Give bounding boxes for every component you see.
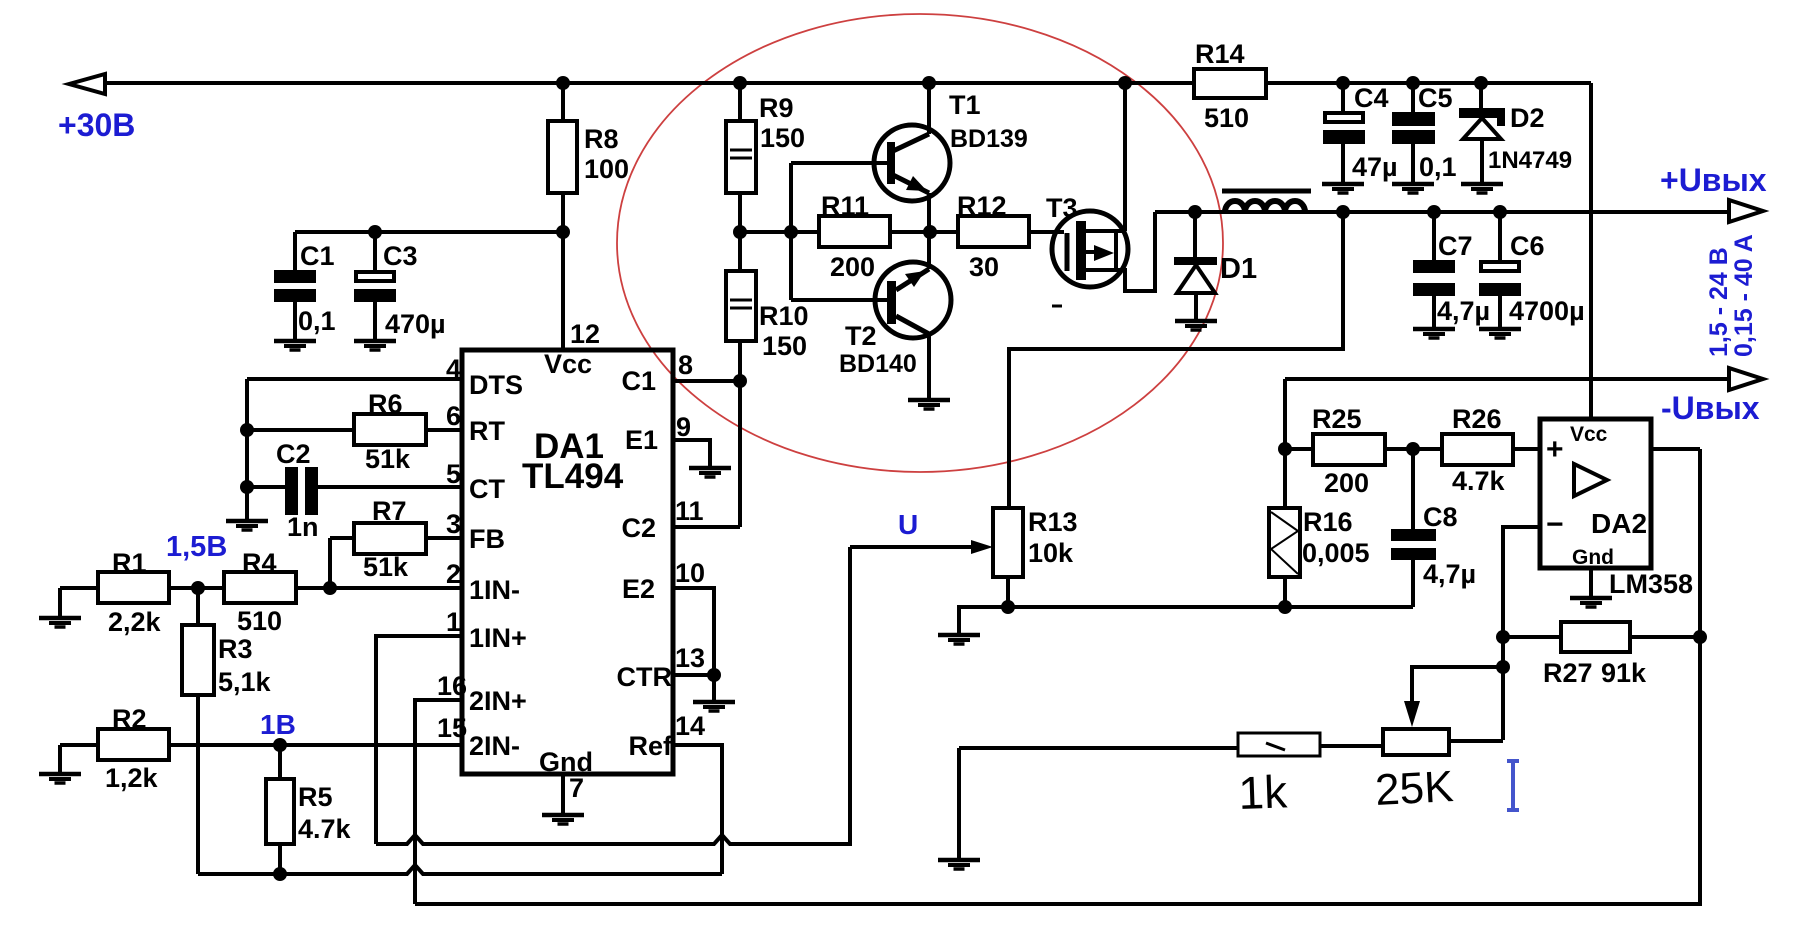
resistor R8 <box>548 83 629 232</box>
node R27 right junction <box>1693 630 1707 644</box>
node blue cursor mark <box>1507 761 1519 810</box>
wire pin 10 E2 <box>673 588 714 675</box>
svg-text:C7: C7 <box>1438 231 1473 261</box>
wire R1 to R4 <box>169 586 224 590</box>
svg-text:4.7k: 4.7k <box>1452 466 1506 496</box>
svg-text:2IN+: 2IN+ <box>469 686 527 716</box>
transistor T3 MOSFET <box>1046 193 1128 287</box>
ground under C4 <box>1322 184 1364 193</box>
node R25/R16 junction <box>1278 442 1292 456</box>
svg-text:+Uвых: +Uвых <box>1660 162 1767 198</box>
wire pin 14 Ref <box>673 745 722 874</box>
svg-text:R1: R1 <box>112 548 147 578</box>
node RT junction <box>240 423 254 437</box>
svg-text:6: 6 <box>446 401 461 431</box>
wire R2 ground stub <box>58 745 62 772</box>
svg-text:510: 510 <box>237 606 282 636</box>
svg-text:1: 1 <box>446 607 461 637</box>
svg-text:25K: 25K <box>1374 762 1455 815</box>
svg-text:R12: R12 <box>957 191 1007 221</box>
svg-text:R25: R25 <box>1312 404 1362 434</box>
svg-text:1IN-: 1IN- <box>469 575 520 605</box>
svg-text:1IN+: 1IN+ <box>469 623 527 653</box>
node R25/R26/C8 junction <box>1406 442 1420 456</box>
svg-text:Gnd: Gnd <box>1572 546 1614 569</box>
wire DTS/RT/CT vertical <box>245 379 249 520</box>
svg-text:1,2k: 1,2k <box>105 763 159 793</box>
svg-text:1N4749: 1N4749 <box>1488 147 1572 174</box>
wire pin 1 1IN+ <box>376 636 462 844</box>
svg-text:13: 13 <box>675 643 705 673</box>
node rail junction C5 <box>1406 76 1420 90</box>
svg-text:BD140: BD140 <box>839 350 917 378</box>
node U arrow to R13 <box>850 509 993 554</box>
wire -U sense vertical <box>1283 379 1287 508</box>
wire Vcc node to C1/C3 <box>295 230 563 234</box>
svg-text:CT: CT <box>469 474 505 504</box>
wire switch node line <box>1155 210 1729 214</box>
wire output feedback line <box>1009 212 1343 508</box>
capacitor C5 0,1 <box>1392 83 1457 182</box>
ground under DA2 <box>1570 598 1612 607</box>
node rail junction T1 collector <box>922 76 936 90</box>
ground under CTR <box>693 702 735 711</box>
wire CTR ground stub <box>712 675 716 700</box>
svg-text:R3: R3 <box>218 634 253 664</box>
svg-text:150: 150 <box>760 123 805 153</box>
resistor R11 200 <box>819 191 890 282</box>
resistor R27 91k <box>1503 622 1700 688</box>
svg-text:T3: T3 <box>1046 193 1078 223</box>
svg-text:RT: RT <box>469 416 505 446</box>
svg-text:R5: R5 <box>298 782 333 812</box>
node R27 left junction <box>1496 630 1510 644</box>
svg-text:0,005: 0,005 <box>1302 538 1370 568</box>
node +30V input arrow <box>69 74 105 94</box>
svg-text:9: 9 <box>676 412 691 442</box>
svg-text:R8: R8 <box>584 124 619 154</box>
resistor R16 0,005 <box>1269 507 1370 607</box>
node inductor right junction <box>1336 205 1350 219</box>
svg-text:C5: C5 <box>1418 83 1453 113</box>
ground under D1 <box>1175 321 1217 330</box>
svg-text:200: 200 <box>1324 468 1369 498</box>
resistor R26 4.7k <box>1442 404 1540 496</box>
resistor R14 510 <box>1194 39 1266 133</box>
potentiometer 25K <box>1320 729 1503 815</box>
svg-text:C3: C3 <box>383 241 418 271</box>
svg-text:2IN-: 2IN- <box>469 731 520 761</box>
wire bus3 current feedback <box>415 449 1700 904</box>
svg-text:D1: D1 <box>1220 253 1257 285</box>
svg-text:1,5 - 24 В: 1,5 - 24 В <box>1705 247 1733 357</box>
svg-text:7: 7 <box>569 773 584 803</box>
ground under C5 <box>1392 184 1434 193</box>
svg-text:C1: C1 <box>621 366 656 396</box>
wire R11 to R12 <box>890 230 958 234</box>
svg-text:91k: 91k <box>1601 658 1647 688</box>
svg-text:D2: D2 <box>1510 103 1545 133</box>
wire pin 9 E1 <box>673 440 710 466</box>
wire mid node to R11 <box>740 230 819 234</box>
svg-text:C8: C8 <box>1423 502 1458 532</box>
ground under C6 <box>1479 329 1521 338</box>
inductor L1 <box>1222 191 1311 212</box>
svg-text:3: 3 <box>446 509 461 539</box>
svg-text:4.7k: 4.7k <box>298 814 352 844</box>
svg-text:R10: R10 <box>759 301 809 331</box>
node -Uout arrow <box>1729 368 1763 390</box>
resistor R1 2,2k <box>60 548 169 637</box>
capacitor C2 1n <box>247 439 462 542</box>
svg-text:+30В: +30В <box>58 107 135 143</box>
resistor R7 51k <box>330 496 462 588</box>
svg-text:R26: R26 <box>1452 404 1502 434</box>
zener diode D2 1N4749 <box>1459 83 1572 182</box>
wire DA2 Vcc vertical <box>1589 83 1593 419</box>
svg-text:R6: R6 <box>368 389 403 419</box>
svg-text:8: 8 <box>678 350 693 380</box>
capacitor C4 47µ <box>1323 83 1398 182</box>
node 1,5V divider junction <box>191 581 205 595</box>
node R13 bottom junction <box>1001 600 1015 614</box>
svg-text:30: 30 <box>969 252 999 282</box>
svg-text:200: 200 <box>830 252 875 282</box>
ground under D2 <box>1461 184 1503 193</box>
svg-text:LM358: LM358 <box>1609 569 1693 599</box>
svg-text:15: 15 <box>437 713 467 743</box>
resistor R25 200 <box>1285 404 1442 498</box>
wire DA2 inverting input <box>1503 527 1540 740</box>
svg-text:C6: C6 <box>1510 231 1545 261</box>
svg-text:-Uвых: -Uвых <box>1661 390 1760 426</box>
node E2/CTR junction <box>707 668 721 682</box>
node CT junction <box>240 480 254 494</box>
svg-text:47µ: 47µ <box>1352 152 1398 182</box>
resistor R9 150 <box>726 83 805 232</box>
wire DA2 gnd stub <box>1589 568 1593 596</box>
wire +30V rail right of R14 <box>1266 81 1591 85</box>
wire pin 8 C1 output <box>673 379 740 383</box>
svg-text:TL494: TL494 <box>522 457 624 496</box>
svg-text:4,7µ: 4,7µ <box>1437 296 1490 326</box>
node D1 junction <box>1188 205 1202 219</box>
svg-text:14: 14 <box>675 711 705 741</box>
ground under E1 <box>689 468 731 477</box>
wire pin 4 DTS <box>247 377 462 381</box>
ground under pin 7 <box>542 815 584 824</box>
resistor R12 30 <box>957 191 1029 282</box>
rheostat 1k <box>959 733 1320 858</box>
capacitor C8 4,7µ <box>1391 449 1476 607</box>
svg-text:R27: R27 <box>1543 658 1593 688</box>
svg-text:U: U <box>898 509 918 540</box>
svg-text:R9: R9 <box>759 93 794 123</box>
ground under mid bus <box>938 635 980 644</box>
node C7 junction <box>1427 205 1441 219</box>
node wiper branch junction <box>1496 660 1510 674</box>
svg-text:0,1: 0,1 <box>1419 152 1457 182</box>
wire ground bus mid <box>959 607 1413 633</box>
capacitor C6 4700µ <box>1479 212 1585 327</box>
potentiometer R13 10k <box>993 507 1078 607</box>
resistor R3 5,1k <box>182 588 272 874</box>
capacitor C3 470µ <box>354 232 446 339</box>
transistor T2 BD140 <box>791 232 951 398</box>
svg-text:C4: C4 <box>1354 83 1389 113</box>
node rail junction D2 <box>1474 76 1488 90</box>
wire bus1 U feedback <box>376 547 850 844</box>
svg-text:R4: R4 <box>242 548 277 578</box>
ground under 1k wire <box>938 860 980 869</box>
svg-text:Vcc: Vcc <box>1570 423 1608 446</box>
capacitor C7 4,7µ <box>1413 212 1490 327</box>
diode D1 <box>1174 212 1257 319</box>
svg-text:C2: C2 <box>276 439 311 469</box>
node C1/C2 output junction <box>733 374 747 388</box>
node +Uout arrow <box>1729 200 1763 222</box>
wire Vcc node down to pin 12 <box>561 232 565 350</box>
wire pin 11 C2 <box>673 525 740 529</box>
svg-text:1k: 1k <box>1238 765 1289 819</box>
ground under T2 <box>908 400 950 409</box>
svg-text:T2: T2 <box>845 321 877 351</box>
wire R12 to T3 gate <box>1029 230 1064 234</box>
svg-text:−: − <box>1546 508 1564 541</box>
svg-text:2,2k: 2,2k <box>108 607 162 637</box>
wire pin 7 ground stub <box>561 774 565 813</box>
svg-text:470µ: 470µ <box>385 309 446 339</box>
node wiper arrow <box>1404 701 1420 727</box>
node rail junction R9 <box>733 76 747 90</box>
resistor R4 510 <box>224 548 296 636</box>
svg-text:R13: R13 <box>1028 507 1078 537</box>
svg-text:100: 100 <box>584 154 629 184</box>
node emitters junction <box>923 225 937 239</box>
svg-text:1В: 1В <box>260 709 296 740</box>
svg-text:FB: FB <box>469 524 505 554</box>
svg-text:16: 16 <box>437 671 467 701</box>
op-amp U-block DA1 TL494 <box>462 349 673 777</box>
node base feed junction <box>784 225 798 239</box>
svg-text:5,1k: 5,1k <box>218 667 272 697</box>
resistor R6 51k <box>247 389 462 474</box>
node rail junction C4 <box>1336 76 1350 90</box>
wire +30V rail left <box>105 81 1194 85</box>
svg-text:R2: R2 <box>112 704 147 734</box>
svg-text:1n: 1n <box>287 512 319 542</box>
resistor R10 150 <box>726 232 809 381</box>
svg-text:10: 10 <box>675 558 705 588</box>
svg-text:150: 150 <box>762 331 807 361</box>
svg-text:4700µ: 4700µ <box>1509 296 1585 326</box>
node C6 junction <box>1493 205 1507 219</box>
node C3 junction <box>368 225 382 239</box>
svg-text:E2: E2 <box>622 574 655 604</box>
ground under CT node <box>226 521 268 530</box>
svg-text:DTS: DTS <box>469 370 523 400</box>
svg-text:510: 510 <box>1204 103 1249 133</box>
wire DA2 output <box>1651 447 1700 451</box>
svg-text:4,7µ: 4,7µ <box>1423 559 1476 589</box>
wire ref bus2 <box>198 865 722 874</box>
ground under R2 <box>39 774 81 783</box>
svg-text:C1: C1 <box>300 241 335 271</box>
node 1V junction <box>273 738 287 752</box>
node driver mid rail R9/R10 <box>733 225 747 239</box>
svg-text:R14: R14 <box>1195 39 1245 69</box>
wire wiper loop <box>1412 667 1503 702</box>
wire pin 2 1IN- <box>296 586 462 590</box>
svg-text:CTR: CTR <box>617 662 673 692</box>
node R5 bottom junction <box>273 867 287 881</box>
svg-text:E1: E1 <box>625 425 658 455</box>
node rail junction T3 drain <box>1118 76 1132 90</box>
ground under R1 <box>39 618 81 627</box>
wire C1 to C2 pin vertical <box>738 381 742 527</box>
ground under C1 <box>274 341 316 350</box>
node rail junction R8 <box>556 76 570 90</box>
node stray mark <box>1052 305 1062 308</box>
svg-text:BD139: BD139 <box>950 125 1028 153</box>
transistor T1 BD139 <box>791 83 1028 232</box>
svg-text:Gnd: Gnd <box>539 747 593 777</box>
capacitor C1 0,1 <box>274 232 336 339</box>
svg-text:10k: 10k <box>1028 538 1074 568</box>
svg-text:12: 12 <box>570 319 600 349</box>
resistor R5 4.7k <box>266 745 352 874</box>
wire pin 16 2IN+ <box>415 700 462 904</box>
node Vcc junction at R8 bottom <box>556 225 570 239</box>
ground under C3 <box>354 341 396 350</box>
red highlight ellipse <box>617 14 1223 472</box>
node R7 tap <box>323 581 337 595</box>
svg-text:0,1: 0,1 <box>298 306 336 336</box>
svg-text:51k: 51k <box>363 552 409 582</box>
wire T3 drain to rail <box>1123 83 1127 231</box>
svg-text:R16: R16 <box>1303 507 1353 537</box>
wire T3 source to output node <box>1116 212 1155 291</box>
svg-text:R7: R7 <box>372 496 407 526</box>
svg-text:1,5В: 1,5В <box>166 531 227 563</box>
wire pin 13 CTR <box>673 673 714 677</box>
wire -Uout sense line <box>1285 377 1729 381</box>
svg-text:+: + <box>1546 433 1564 466</box>
op-amp DA2 LM358 <box>1540 419 1651 569</box>
node R16 bottom junction <box>1278 600 1292 614</box>
svg-text:C2: C2 <box>621 513 656 543</box>
svg-text:11: 11 <box>675 496 704 526</box>
resistor R2 1,2k <box>60 704 462 793</box>
svg-text:R11: R11 <box>821 191 869 221</box>
svg-text:Ref: Ref <box>628 731 673 761</box>
svg-text:Vcc: Vcc <box>544 349 592 379</box>
svg-text:51k: 51k <box>365 444 411 474</box>
svg-text:5: 5 <box>446 459 461 489</box>
svg-text:2: 2 <box>446 559 461 589</box>
svg-text:DA2: DA2 <box>1591 508 1647 539</box>
wire base feed vertical <box>789 163 793 300</box>
svg-text:T1: T1 <box>949 90 981 120</box>
ground under C7 <box>1413 329 1455 338</box>
svg-text:0,15 - 40 A: 0,15 - 40 A <box>1730 234 1758 357</box>
wire R1 ground stub <box>58 588 62 616</box>
